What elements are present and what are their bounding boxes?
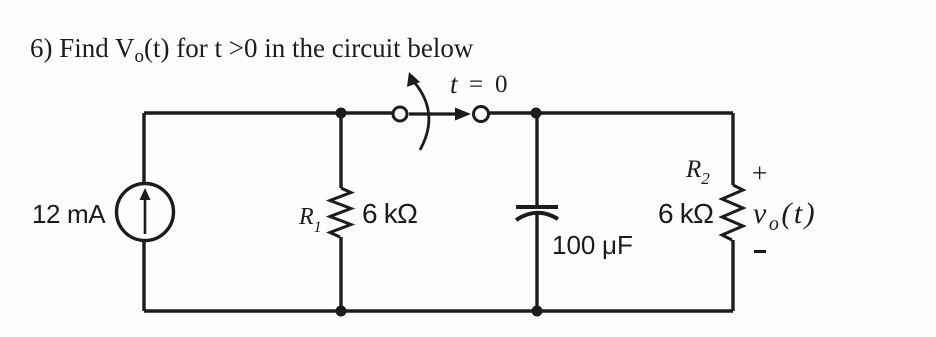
svg-text:6 kΩ: 6 kΩ bbox=[362, 198, 417, 229]
capacitor C1 bbox=[516, 207, 558, 220]
resistor R1 bbox=[330, 188, 351, 237]
wire capacitor branch upper bbox=[535, 113, 538, 206]
node A (R1 top junction) bbox=[336, 108, 347, 119]
node C (R1 bottom junction) bbox=[336, 306, 347, 317]
node D (capacitor bottom junction) bbox=[532, 306, 543, 317]
label minus bbox=[754, 250, 766, 253]
svg-text:t: t bbox=[450, 69, 459, 99]
svg-text:100: 100 bbox=[552, 230, 595, 260]
svg-text:=: = bbox=[469, 71, 483, 98]
svg-text:R1: R1 bbox=[298, 204, 322, 236]
svg-text:6 kΩ: 6 kΩ bbox=[658, 198, 713, 229]
wire bottom rail bbox=[144, 309, 733, 312]
resistor R2 bbox=[722, 185, 743, 240]
wire right rail lower bbox=[731, 240, 734, 311]
svg-text:0: 0 bbox=[495, 71, 508, 98]
current source I1 12 mA bbox=[117, 184, 174, 241]
switch SW1 bbox=[393, 72, 489, 150]
wire capacitor branch lower bbox=[535, 212, 538, 311]
wire top-right segment bbox=[488, 111, 733, 114]
wire R1 branch lower bbox=[339, 237, 342, 311]
wire left rail upper bbox=[142, 113, 145, 183]
svg-text:R2: R2 bbox=[685, 156, 710, 188]
wire top-left segment bbox=[144, 111, 393, 114]
wire R1 branch upper bbox=[339, 113, 342, 188]
node B (capacitor top junction) bbox=[531, 108, 542, 119]
wire left rail lower bbox=[142, 241, 145, 311]
svg-text:12 mA: 12 mA bbox=[32, 199, 106, 229]
svg-text:μF: μF bbox=[602, 230, 633, 260]
svg-text:6) Find Vo(t) for t >0 in the: 6) Find Vo(t) for t >0 in the circuit be… bbox=[30, 33, 474, 67]
svg-text:vo(t): vo(t) bbox=[753, 197, 817, 235]
svg-text:+: + bbox=[752, 158, 767, 188]
wire right rail upper bbox=[731, 113, 734, 185]
